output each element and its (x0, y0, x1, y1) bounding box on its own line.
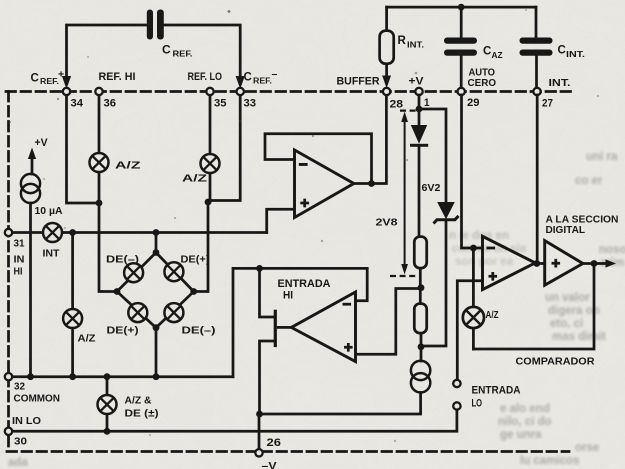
resistor R6 (414, 304, 426, 334)
node: minus input junction (470, 245, 477, 252)
diode D1 (411, 125, 427, 144)
plus sign of C2 (552, 259, 561, 268)
wire: comparator2 output (583, 262, 607, 265)
arrowhead into pin 33 (236, 76, 245, 89)
wire: node down to diamond left vertex (99, 203, 117, 292)
node: pin1/zener junction (416, 106, 423, 113)
node: transistor tap on rail (256, 265, 263, 272)
wire: IN LO rail from pin 30 (12, 410, 457, 432)
transistor Q1 channel bar (274, 310, 277, 347)
terminal ENTRADA LO upper (453, 380, 460, 387)
wire: diode cathode down to R5 (418, 147, 421, 237)
wire: comparator1 output to comparator2 (535, 262, 545, 265)
terminal ENTRADA LO lower (453, 402, 460, 409)
wire: -V rail pin 26 up (258, 414, 261, 449)
wire: transistor drain lead down to -V rail (260, 341, 274, 414)
wire: R5 to R6 (419, 268, 422, 304)
minus sign of A1 (299, 163, 308, 166)
wire: R6 to current source node (420, 333, 423, 361)
wire: C_INT leads (535, 7, 538, 87)
switch A/Z comparator (463, 307, 484, 328)
node: -V rail junction (256, 411, 263, 418)
node: diamond vertices (153, 249, 160, 256)
diamond DE switch bridge wires (117, 233, 194, 377)
wire: A/Z left branch IN HI to COMMON (71, 233, 74, 309)
node: divider tap (418, 284, 425, 291)
node: top rail junction (458, 4, 465, 11)
wire: A1 output to pin 28 riser (354, 95, 387, 184)
wire: diamond top vertex to IN HI line (155, 233, 158, 253)
wire: COMMON up to ENTRADA HI node rail (233, 268, 367, 376)
node: COMMON junctions (27, 373, 34, 380)
capacitor C_REF plates (147, 10, 164, 40)
pin 26 -V (255, 449, 262, 456)
arrowhead output to digital section (606, 259, 617, 267)
current source Q 2 circles (411, 361, 430, 393)
current source I1 10uA (21, 174, 40, 203)
node: IN HI / A-Z branch (69, 229, 76, 236)
capacitor C_INT plates (520, 38, 553, 56)
pin 33 C_REF- (237, 88, 244, 95)
op-amp A2 ENTRADA HI (points left) (291, 292, 355, 362)
wire: pin 33 branch joining REF LO node (208, 95, 240, 201)
wire: R_INT bottom lead to pin 28 (385, 64, 388, 77)
switch A/Z on REF HI line (90, 153, 109, 172)
wire: gate stub to amp apex (277, 326, 291, 329)
wire: pin 36 down to node (98, 95, 101, 152)
wire: pin 34 branch to node at y203 (67, 95, 100, 203)
dimension 2V8 bottom tick (390, 275, 416, 277)
switch DE(+) lower-left (128, 303, 147, 322)
pin 1 +V (415, 88, 422, 95)
wire: pin 1 down to diode node (418, 95, 421, 125)
arrowhead R_INT into pin 28 (382, 76, 391, 89)
plus sign of A1 (300, 199, 309, 208)
dimension 2V8 arrow line (404, 119, 406, 267)
switch DE(-) lower-right (164, 303, 183, 322)
pin 30 IN LO (5, 428, 12, 435)
wire: pin 29 down to comparator minus (462, 95, 483, 248)
switch A/Z &amp; DE(+/-) (98, 395, 117, 414)
wire: A1 minus input feedback loop (265, 134, 372, 184)
op-amp C2 comparator output stage (545, 241, 583, 286)
wire: chip boundary dashed top (6, 90, 575, 93)
wire: transistor source lead from node rail (260, 268, 274, 317)
node: zener/R6 junction (418, 343, 425, 350)
dimension 2V8 top tick (400, 109, 418, 111)
wire: zener branch top (419, 109, 446, 202)
switch A/Z on REF LO line (201, 154, 220, 173)
wire: A2 plus input to divider node (356, 289, 422, 355)
pin 34 C_REF+ (63, 88, 70, 95)
junction node at (99,203) (96, 200, 103, 207)
resistor R5 (414, 237, 426, 269)
node: IN HI / diamond top (153, 229, 160, 236)
wire: comparator plus input from ENTRADA LO (457, 281, 482, 380)
wire: diamond bottom vertex to COMMON line (155, 328, 158, 377)
plus sign of A2 (344, 343, 353, 352)
switch DE(+) upper-right (164, 262, 183, 281)
zener D2 6V2 (437, 202, 455, 219)
resistor R_INT (380, 31, 394, 64)
wire: comparator feedback loop (473, 264, 594, 350)
wire: REF LO node down to diamond right vertex (194, 202, 208, 292)
wire: A/Z comparator branch (472, 248, 475, 308)
pin 31 IN HI (5, 229, 12, 236)
plus sign of C1 (489, 272, 498, 281)
wire: IN HI rail from pin 31 (12, 231, 267, 234)
node: INT/comparator1 output (533, 260, 540, 267)
junction node at (208,202) (205, 199, 212, 206)
wire: R_INT top lead (385, 7, 388, 31)
wire: COMMON rail from pin 32 (12, 375, 234, 378)
node: IN LO junction (104, 428, 111, 435)
pin 36 REF HI (95, 88, 102, 95)
pin 32 COMMON (5, 373, 12, 380)
wire: C_REF left lead down to pin 34 (67, 25, 148, 78)
pin 35 REF LO (206, 88, 213, 95)
arrowhead +V current source (28, 148, 36, 160)
switch INT on IN HI line (43, 223, 62, 242)
minus sign of C1 (487, 247, 496, 250)
op-amp C1 comparator (483, 236, 536, 289)
pin 28 BUFFER (383, 88, 390, 95)
capacitor C_AZ plates (444, 38, 477, 56)
node: A1 output junction (368, 180, 375, 187)
wire: chip boundary dashed bottom (7, 450, 569, 453)
pin 27 INT (533, 88, 540, 95)
switch DE(-) upper-left (124, 263, 143, 282)
wire: top rail R_INT/C_AZ/C_INT (387, 6, 536, 9)
wire: zener cathode down and to node (421, 221, 446, 346)
wire: pin 35 down through A/Z (209, 95, 212, 153)
wire: C_REF right lead down to pin 33 (164, 25, 240, 78)
arrowhead into pin 34 (62, 76, 71, 89)
wire: pin 27 INT down to comparator node (536, 95, 539, 264)
node: output/feedback junction (591, 260, 598, 267)
switch A/Z left (63, 309, 82, 328)
wire: A2 feedback minus input to rail (356, 268, 368, 300)
minus sign of A2 (343, 303, 352, 306)
pin 29 AUTO CERO (458, 88, 465, 95)
op-amp A1 buffer (295, 150, 354, 218)
wire: current source down to COMMON (29, 203, 32, 377)
wire: buffer + input drop (267, 209, 295, 232)
wire: chip boundary dashed left (7, 92, 10, 452)
wire: C_AZ leads (460, 7, 463, 87)
wire: A/Z &amp; DE switch branch COMMON to IN LO (106, 377, 109, 395)
wire: +V arrow stem for current source (31, 157, 34, 174)
wire: -V rail to current source Q (260, 393, 421, 415)
